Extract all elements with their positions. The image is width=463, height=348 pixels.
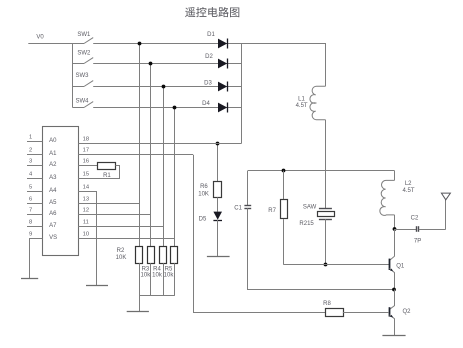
svg-text:R215: R215	[299, 221, 314, 227]
svg-text:SW4: SW4	[75, 98, 89, 104]
svg-text:D1: D1	[207, 32, 215, 38]
svg-text:A7: A7	[49, 223, 57, 229]
svg-text:10K: 10K	[116, 255, 127, 261]
svg-text:D4: D4	[202, 101, 210, 107]
svg-text:VS: VS	[49, 235, 57, 241]
svg-text:Q1: Q1	[396, 263, 405, 269]
svg-text:R8: R8	[323, 301, 331, 307]
svg-text:15: 15	[83, 172, 89, 178]
svg-text:10k: 10k	[152, 273, 163, 279]
svg-text:R1: R1	[103, 173, 111, 179]
svg-text:10K: 10K	[198, 192, 209, 198]
svg-text:12: 12	[83, 208, 89, 214]
svg-text:10k: 10k	[164, 273, 175, 279]
svg-text:Q2: Q2	[402, 309, 411, 315]
svg-text:5: 5	[29, 185, 32, 191]
svg-text:A1: A1	[49, 151, 57, 157]
svg-text:A3: A3	[49, 175, 57, 181]
svg-text:7P: 7P	[414, 239, 421, 245]
svg-text:D5: D5	[199, 217, 207, 223]
svg-text:R5: R5	[165, 266, 173, 272]
svg-text:SAW: SAW	[303, 204, 317, 210]
svg-text:13: 13	[83, 197, 89, 203]
svg-text:R2: R2	[117, 248, 125, 254]
svg-text:A2: A2	[49, 162, 57, 168]
svg-text:8: 8	[29, 220, 32, 226]
svg-text:L2: L2	[405, 181, 412, 187]
svg-text:C2: C2	[411, 215, 419, 221]
svg-text:4.5T: 4.5T	[296, 103, 308, 109]
svg-text:18: 18	[83, 137, 89, 143]
svg-text:14: 14	[83, 185, 90, 191]
svg-text:11: 11	[83, 220, 89, 226]
svg-text:1: 1	[29, 135, 32, 141]
svg-text:SW2: SW2	[77, 50, 91, 56]
svg-text:A4: A4	[49, 188, 57, 194]
svg-text:R3: R3	[142, 266, 150, 272]
svg-text:10k: 10k	[141, 273, 152, 279]
svg-text:SW3: SW3	[75, 73, 89, 79]
svg-text:10: 10	[83, 232, 89, 238]
svg-text:4.5T: 4.5T	[402, 188, 414, 194]
svg-text:16: 16	[83, 159, 89, 165]
svg-text:2: 2	[29, 148, 32, 154]
svg-text:R4: R4	[153, 266, 161, 272]
svg-text:3: 3	[29, 159, 32, 165]
svg-text:7: 7	[29, 208, 32, 214]
svg-text:R7: R7	[268, 208, 276, 214]
svg-text:A5: A5	[49, 200, 57, 206]
svg-text:D3: D3	[204, 80, 212, 86]
svg-text:17: 17	[83, 148, 89, 154]
svg-text:A0: A0	[49, 138, 57, 144]
svg-text:C1: C1	[234, 205, 242, 211]
svg-text:A6: A6	[49, 211, 57, 217]
svg-text:6: 6	[29, 197, 32, 203]
svg-text:SW1: SW1	[77, 32, 91, 38]
svg-text:V0: V0	[36, 34, 44, 40]
svg-text:D2: D2	[205, 54, 213, 60]
svg-text:9: 9	[29, 232, 32, 238]
svg-text:R6: R6	[200, 184, 208, 190]
svg-text:L1: L1	[298, 96, 305, 102]
